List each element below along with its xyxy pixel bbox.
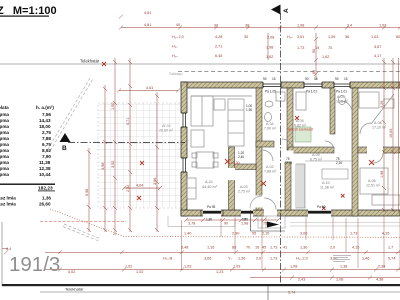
dim ticks top main — [119, 26, 400, 30]
window south small — [241, 210, 253, 217]
svg-text:greslapma: greslapma — [0, 112, 9, 117]
section line A-A vertical dash-dot — [280, 13, 282, 284]
interior wall H1b — [358, 147, 400, 153]
red dim numbers top rows — [136, 11, 400, 188]
staircase lines — [296, 161, 352, 208]
room label A-05 — [294, 119, 307, 128]
table extra rows — [0, 196, 51, 207]
svg-text:7,90: 7,90 — [42, 154, 51, 159]
red dim numbers rotated verticals — [85, 49, 393, 196]
window west wall upper — [181, 113, 188, 127]
svg-text:burkolata: burkolata — [0, 105, 9, 110]
interior wall A-03 horizontal — [234, 164, 256, 170]
interior wall V2 lower — [285, 162, 291, 210]
room label living — [202, 180, 218, 189]
area table rows — [0, 112, 51, 177]
red dim numbers bottom rows — [6, 222, 395, 295]
cabinet west wall — [187, 178, 196, 199]
dim line bottom y252 — [45, 251, 400, 253]
eaves dashed line — [178, 71, 400, 73]
entrance door opening — [264, 210, 277, 217]
svg-text:greslapma: greslapma — [0, 166, 9, 171]
dim line terrace — [119, 90, 178, 92]
interior wall H2 — [256, 141, 274, 147]
room label stairs A-10 — [320, 181, 335, 190]
tiny black door size labels — [206, 77, 348, 222]
washbasin room A-05 — [296, 92, 346, 110]
vertical dim line x115 — [114, 58, 116, 232]
dim line bottom y220 — [186, 219, 278, 221]
svg-text:terasz lmia: terasz lmia — [0, 196, 16, 201]
bathroom fixtures left — [265, 92, 286, 122]
roof corner dashed diagonal bottom-left — [64, 224, 101, 239]
north exterior wall — [181, 82, 400, 88]
door gap bedroom H1b — [367, 147, 383, 154]
red dashed line left — [40, 221, 126, 223]
vertical dim x268 short — [267, 33, 269, 60]
svg-text:10,44: 10,44 — [39, 172, 51, 177]
room label bedroom A-08 — [372, 121, 387, 130]
section marker A top — [271, 5, 281, 15]
south exterior wall — [181, 210, 400, 216]
entrance steps — [258, 216, 285, 228]
svg-text:191/3: 191/3 — [9, 253, 60, 276]
svg-text:6,75: 6,75 — [42, 142, 51, 147]
dim tick top first — [119, 15, 123, 19]
vertical dim line x130 — [129, 58, 131, 232]
terrace door south — [201, 210, 223, 217]
vertical dim line right x384 — [383, 58, 385, 212]
interior wall V3 — [352, 88, 358, 216]
section marker A bottom — [267, 222, 279, 228]
window west wall lower — [181, 158, 188, 172]
property line top (Telekhatar) — [0, 63, 400, 65]
svg-text:greslapma: greslapma — [0, 118, 9, 123]
door arcs — [250, 101, 383, 210]
window W3 north — [334, 82, 350, 89]
bathtub green — [295, 127, 311, 142]
pavement lines right — [290, 223, 400, 227]
door gap V2 — [287, 151, 294, 162]
svg-text:greslapma: greslapma — [0, 136, 9, 141]
kitchen counter furniture — [191, 96, 252, 147]
gray note block right — [333, 255, 351, 262]
vertical dim right edge x398.5 — [398, 58, 400, 212]
svg-text:h. a.(m²): h. a.(m²) — [36, 105, 54, 110]
window W2 north — [304, 82, 322, 89]
interior wall kitchen vertical — [229, 147, 235, 210]
svg-text:12,38: 12,38 — [39, 166, 51, 171]
dim line terrace lower — [124, 187, 160, 189]
svg-text:18,00: 18,00 — [39, 124, 51, 129]
datum lines black — [251, 210, 286, 231]
dim line y269.5 — [45, 269, 400, 271]
roof corner dashed diagonal top-left — [48, 78, 90, 149]
interior wall V2 — [287, 88, 293, 150]
room label bath A-04 — [264, 122, 277, 131]
svg-text:7,56: 7,56 — [42, 112, 51, 117]
bed bedroom right — [359, 92, 400, 205]
interior wall H1 — [288, 147, 334, 153]
vertical dim line x105 — [104, 85, 106, 232]
dim line top main — [121, 27, 400, 29]
west exterior wall — [181, 82, 187, 216]
dim line y277.5 right — [250, 277, 400, 279]
vertical dim line right x393 — [392, 58, 394, 212]
svg-text:8,92: 8,92 — [42, 148, 51, 153]
svg-text:1,36: 1,36 — [42, 196, 51, 201]
svg-text:greslapma: greslapma — [0, 124, 9, 129]
vertical dim line x157 — [156, 92, 158, 232]
svg-text:greslapma: greslapma — [0, 172, 9, 177]
vertical stub bottom — [267, 286, 269, 300]
svg-text:terasz lmia: terasz lmia — [0, 202, 16, 207]
left frame line — [1, 222, 3, 286]
vertical dim line x89 — [88, 148, 90, 232]
svg-text:14,43: 14,43 — [39, 118, 51, 123]
door gap kitchen wall — [228, 168, 235, 180]
window south right — [306, 210, 333, 219]
svg-text:7,88: 7,88 — [42, 136, 51, 141]
thin line bottom — [40, 291, 400, 293]
svg-text:greslapma: greslapma — [0, 142, 9, 147]
red X marks — [102, 62, 374, 210]
extension verticals bottom — [181, 220, 183, 270]
svg-text:greslapma: greslapma — [0, 154, 9, 159]
area table header — [0, 105, 54, 110]
door gap V1 living — [256, 196, 263, 208]
property line bottom thick — [2, 284, 400, 286]
terrace label — [159, 124, 174, 133]
svg-text:greslapma: greslapma — [0, 160, 9, 165]
window W1 north — [263, 82, 281, 89]
room label hall A-02 — [264, 165, 277, 174]
terrace slab edge below south wall — [168, 216, 235, 227]
svg-text:greslapma: greslapma — [0, 130, 9, 135]
interior wall bath/wc — [330, 88, 335, 134]
room label corridor A-09 — [310, 153, 323, 162]
dining table with chairs — [192, 152, 218, 168]
section line B-B horizontal dash-dot — [68, 142, 185, 144]
svg-text:Telekhatár: Telekhatár — [65, 287, 84, 292]
room label A-06 — [366, 179, 381, 188]
svg-text:26,60: 26,60 — [39, 202, 51, 207]
section marker B — [60, 133, 71, 142]
vertical dim x316 short — [315, 33, 317, 80]
interior wall V1 — [256, 88, 262, 210]
dotted boundary line — [50, 209, 400, 237]
terrace tiled grid — [98, 103, 181, 208]
table total line — [0, 184, 55, 185]
svg-text:2,75: 2,75 — [42, 130, 51, 135]
title text M=1:100 — [0, 5, 57, 17]
svg-text:greslapma: greslapma — [0, 148, 9, 153]
room label wc A-07 — [336, 95, 349, 104]
room label A-03 — [238, 185, 251, 194]
svg-text:11,38: 11,38 — [39, 160, 51, 165]
